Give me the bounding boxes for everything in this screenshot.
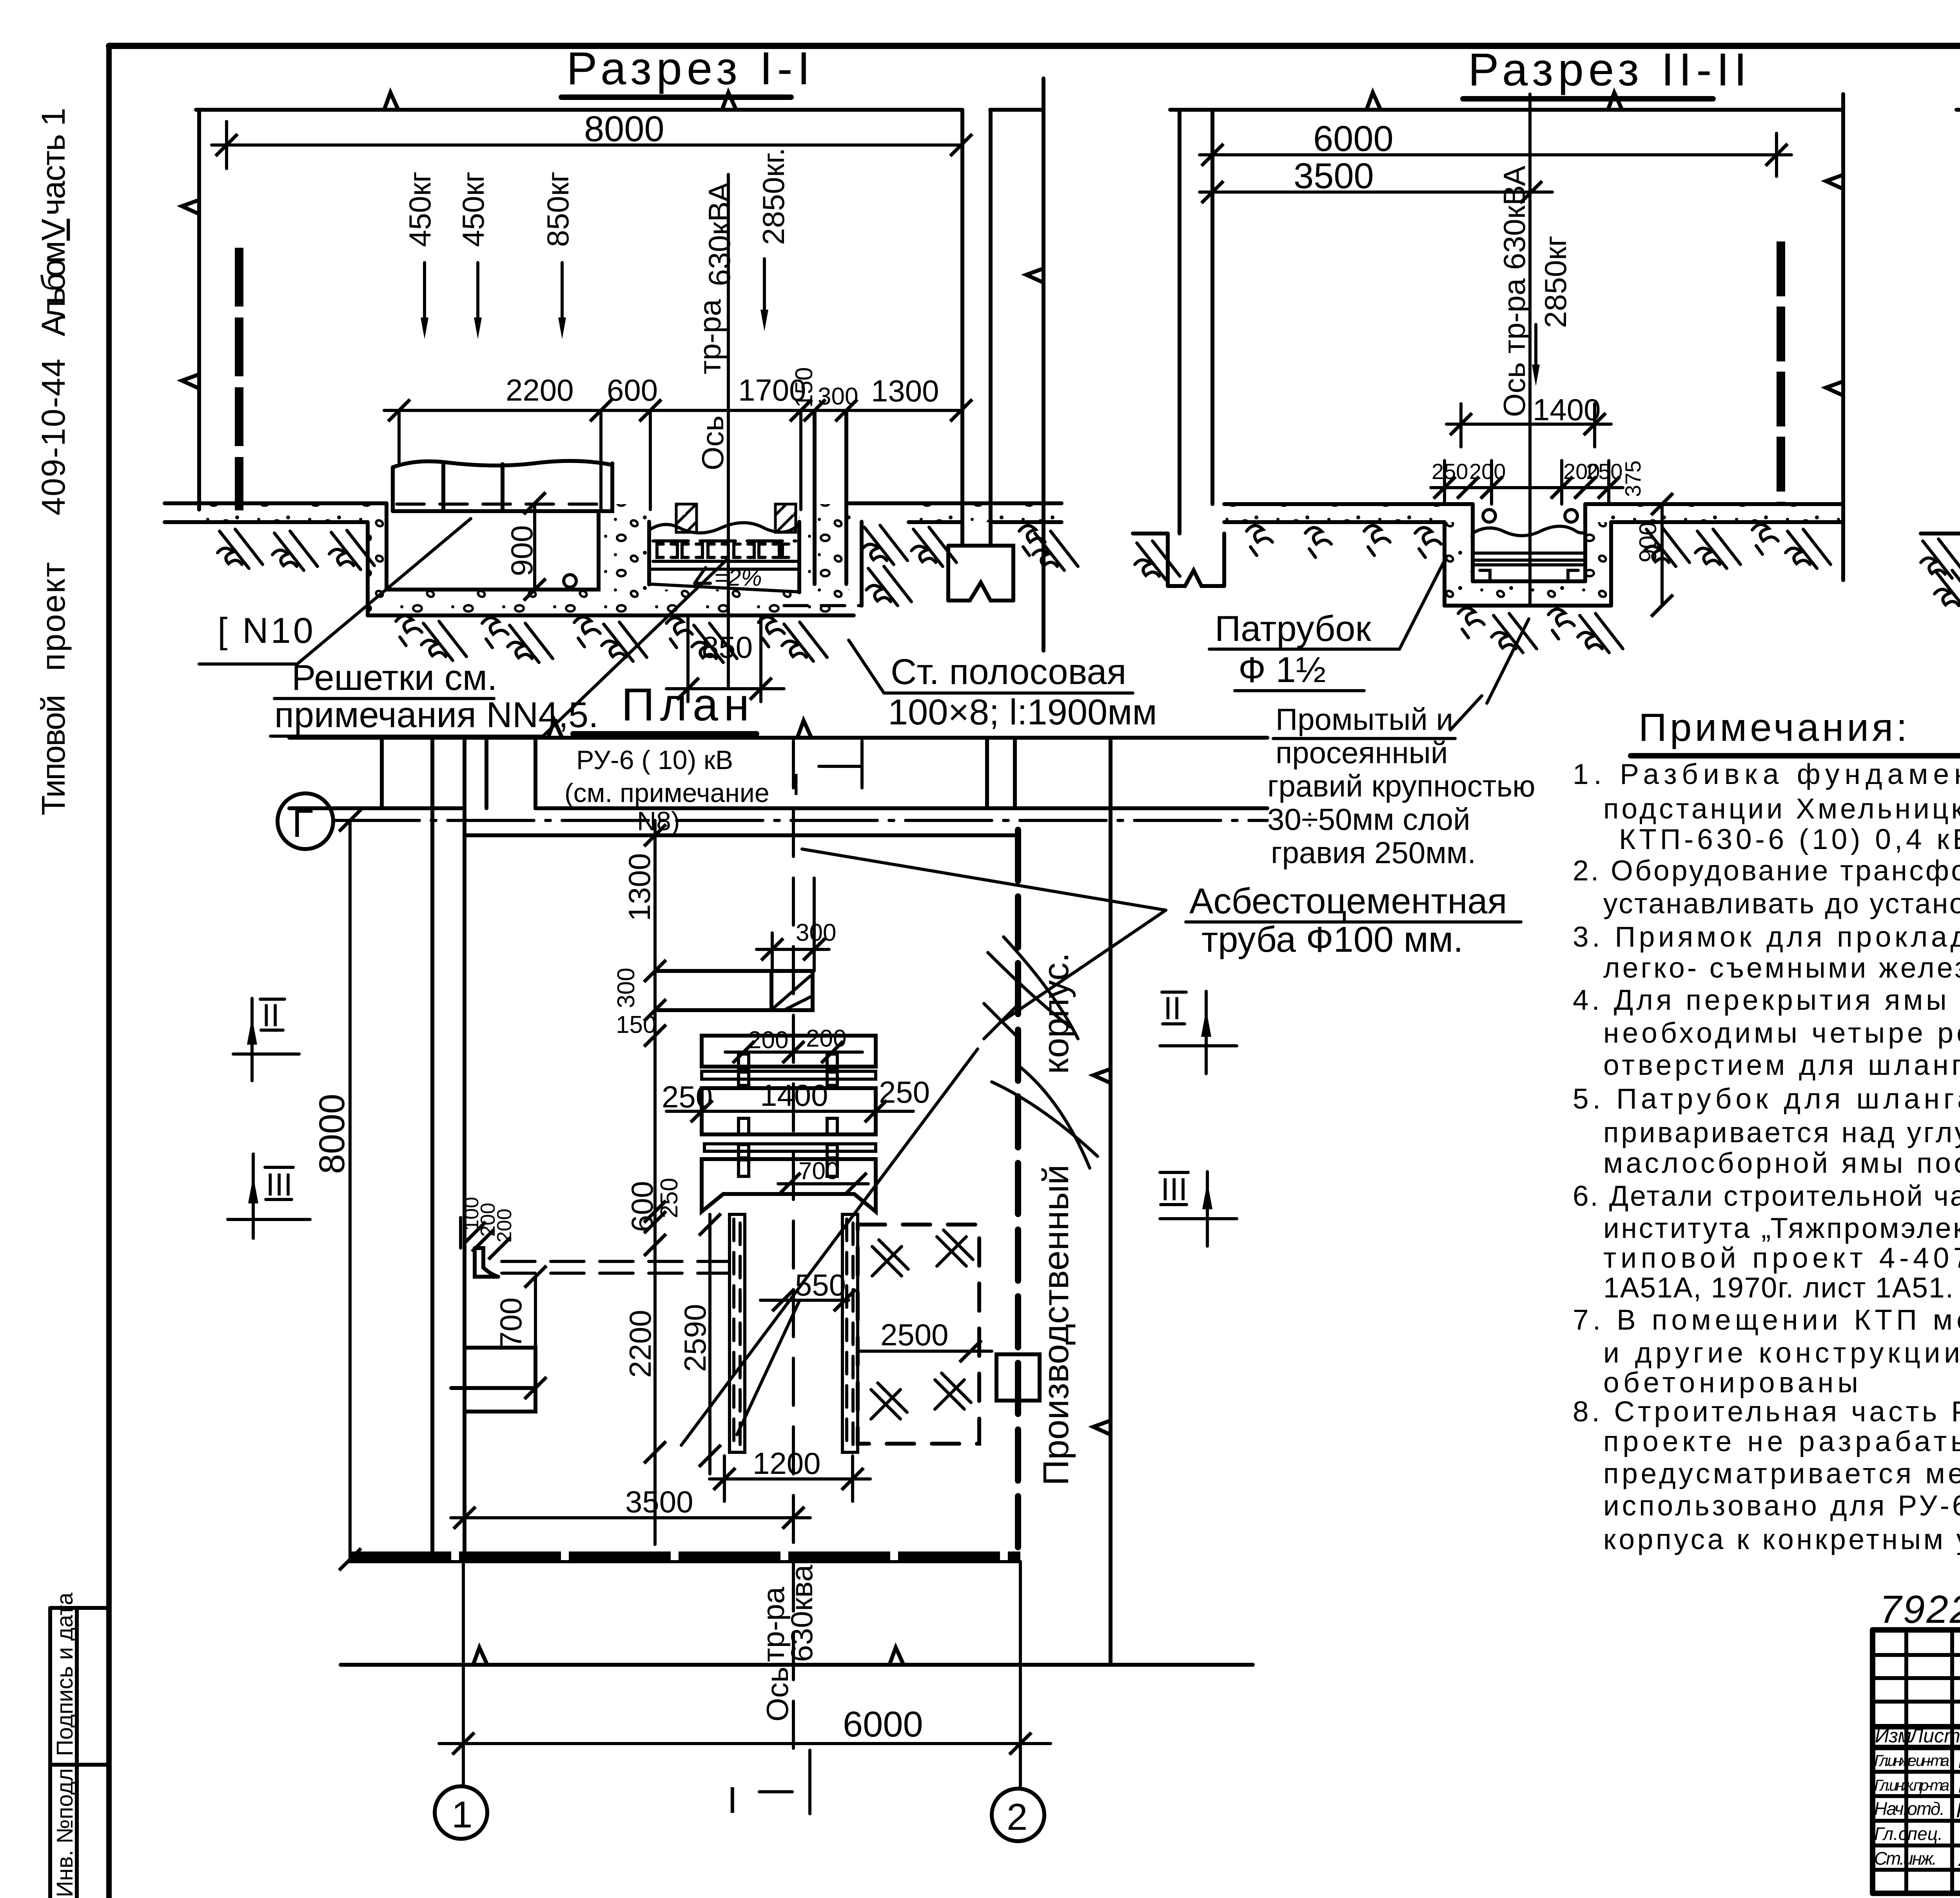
svg-text:II: II [262,998,280,1033]
svg-text:корпуса к конкретным усло: корпуса к конкретным условиям. [1603,1524,1960,1555]
section marks left III [228,1154,310,1238]
svg-text:300: 300 [818,383,858,410]
svg-text:отверстием для шланга.: отверстием для шланга. [1603,1049,1960,1081]
notes title underline [1631,753,1960,758]
section I-I title underline [561,94,791,100]
label underline [199,662,297,666]
floor slab right of pit II [1611,505,1842,522]
pit II left wall [1445,522,1473,606]
right wall thick dashed [1015,830,1021,1551]
svg-text:корпус.: корпус. [1036,953,1076,1074]
svg-text:2200: 2200 [623,1310,657,1378]
svg-text:630кВА: 630кВА [702,182,737,286]
svg-text:100×8; l:1900мм: 100×8; l:1900мм [888,692,1157,732]
dim 3500 bottom [451,1516,810,1519]
2850 arrow [763,259,766,310]
left bracket detail [475,1248,498,1277]
wall inner line lower [465,833,1018,837]
ground hatch left of pit [218,529,263,568]
axis line [1528,94,1532,606]
floor slab left of pit [1224,505,1445,522]
lower dim chain line [384,409,961,412]
svg-text:(см. примечание: (см. примечание [564,778,769,808]
svg-text:6000: 6000 [843,1704,923,1744]
axis G circle [278,793,333,849]
svg-text:Гузенко: Гузенко [1958,1747,1960,1773]
svg-text:гравия 250мм.: гравия 250мм. [1271,835,1476,870]
svg-text:200: 200 [806,1025,846,1052]
svg-text:630ква: 630ква [784,1564,819,1662]
svg-text:7922/9: 7922/9 [1880,1588,1960,1631]
dim 1200 bottom [710,1477,870,1481]
ceiling right stub [990,108,1043,112]
svg-text:Хейфец: Хейфец [1957,1845,1960,1871]
svg-text:1. Разбивка фундаментов прин: 1. Разбивка фундаментов принята для [1573,758,1960,790]
svg-text:План: План [621,679,755,731]
svg-text:часть 1: часть 1 [35,108,72,216]
left border line [106,46,112,1898]
svg-text:1300: 1300 [622,853,657,921]
svg-text:3500: 3500 [1294,156,1374,196]
svg-text:Альбом V: Альбом V [35,219,72,336]
svg-text:700: 700 [799,1158,839,1185]
bottom-left cell box [50,1592,109,1898]
grate lines in pit II [1473,552,1585,555]
dim 250 1400 250 [666,1110,913,1113]
svg-text:1200: 1200 [753,1446,821,1481]
plan title underline [573,731,757,737]
hatched post left [676,504,697,532]
svg-text:2850кг.: 2850кг. [756,148,791,245]
dim extension vertical x1671 [653,820,657,1544]
svg-text:РУ-6 ( 10) кВ: РУ-6 ( 10) кВ [576,745,733,775]
axis line [727,174,730,688]
svg-text:250: 250 [656,1178,683,1218]
svg-text:Гл.инж.пр-та: Гл.инж.пр-та [1874,1777,1949,1794]
svg-text:7. В помещении КТП металл: 7. В помещении КТП металлические колонны [1573,1304,1960,1336]
title block outer top [1873,1627,1960,1633]
channel right of pit [860,522,864,606]
pit inner room [387,511,599,590]
svg-text:Ось тр-ра 630кВА: Ось тр-ра 630кВА [1497,166,1532,417]
column footing [948,546,1013,601]
svg-text:2200: 2200 [506,373,574,407]
svg-text:2590: 2590 [678,1304,712,1372]
svg-text:[ N10: [ N10 [218,611,316,651]
svg-text:450кг: 450кг [456,171,490,247]
right top column pair [985,738,989,808]
pipe stub circles [1483,510,1495,522]
pit left wall (concrete) [368,510,387,615]
sloped pit floor line [649,584,800,592]
ground hatch under pit II [1458,608,1484,638]
dim 700 on row3 [778,1182,868,1185]
svg-text:проекте не разрабатывается.: проекте не разрабатывается. В пролете Г-… [1603,1426,1960,1457]
svg-text:Ось: Ось [760,1667,795,1722]
svg-text:3. Приямок для прокладки ка: 3. Приямок для прокладки кабелей перекры… [1573,921,1960,953]
svg-text:III: III [266,1167,292,1203]
svg-text:250: 250 [879,1075,930,1109]
wall 300 between pit and channel [813,410,817,584]
cable arc 2 [992,1082,1098,1156]
bottom thick wall [349,1551,1020,1562]
slope note 2% [695,568,710,583]
svg-text:250: 250 [1586,459,1622,484]
wall box on right wall [996,1354,1040,1401]
load arrow 2 [476,263,479,321]
pit partition concrete [599,504,649,590]
dim extension lines [397,410,401,463]
svg-text:8000: 8000 [312,1094,352,1174]
asbestos pipe leader B [1000,910,1166,1023]
patrubok leader [1399,561,1445,649]
svg-text:1300: 1300 [871,374,939,408]
svg-text:Ось: Ось [695,416,730,470]
leader from 550 to rail [737,1300,800,1435]
column footing [1921,533,1960,604]
svg-text:250: 250 [662,1080,713,1114]
left table horizontals [1873,1653,1960,1657]
outside ground left [1133,532,1168,535]
svg-text:2. Оборудование трансформатор: 2. Оборудование трансформаторная подстан… [1573,855,1960,887]
small dim chain 250 200 200 250 [1431,486,1623,489]
ground hatch under pit [396,616,422,646]
cable arc 1 [988,953,1070,1027]
LEFT SIDEBAR [35,108,109,1898]
svg-text:III: III [1161,1172,1187,1207]
section marks right II [1160,991,1237,1074]
svg-text:Нач.отд.: Нач.отд. [1874,1798,1945,1819]
asbestos pipe leader A [802,849,1166,910]
vent box 300 dim [757,948,829,951]
svg-text:6. Детали строительной час: 6. Детали строительной части см. альбом [1573,1180,1960,1212]
svg-text:Туркин: Туркин [1958,1820,1960,1847]
svg-text:маслосборной ямы после уста: маслосборной ямы после установки решетки… [1603,1147,1960,1179]
svg-text:устанавливать до установки: устанавливать до установки ограждения. [1603,888,1960,920]
svg-text:3500: 3500 [625,1484,693,1519]
hatch in excavation [862,525,907,564]
floor slab right segment [846,503,1062,522]
transformer platform outline [393,461,612,511]
dim 900 right of pit [1661,504,1664,606]
svg-text:тр-ра: тр-ра [693,299,727,374]
pit right wall concrete [799,504,846,614]
wall footing [1154,533,1224,586]
plan centre axis dash line [792,741,795,1752]
svg-text:600: 600 [607,373,658,407]
long leader diagonal [681,1049,978,1445]
svg-text:Примечания:: Примечания: [1639,706,1910,749]
svg-text:Типовой: Типовой [35,695,72,815]
lower building edge line [341,1663,1253,1667]
grate slab row1 [702,1036,876,1068]
svg-text:Изм: Изм [1875,1725,1911,1747]
drain circle [564,575,576,587]
left wall outer line [1178,110,1181,533]
svg-text:труба Ф100 мм.: труба Ф100 мм. [1201,920,1463,960]
svg-text:Гл.спец.: Гл.спец. [1874,1824,1943,1844]
svg-text:375: 375 [1621,461,1645,497]
svg-text:института „Тяжпромэлектропро: института „Тяжпромэлектропроект" [1603,1212,1960,1244]
svg-text:Инв. №подл.: Инв. №подл. [52,1762,78,1897]
gravel note leader [1487,619,1529,703]
svg-text:6000: 6000 [1313,119,1394,159]
svg-text:Ст.инж.: Ст.инж. [1874,1848,1937,1869]
svg-text:Промытый и: Промытый и [1276,702,1453,737]
svg-text:Гл.инже ин-та: Гл.инже ин-та [1874,1752,1949,1769]
axis G tick [339,809,361,831]
svg-text:1А51А, 1970г. лист 1А51. 64: 1А51А, 1970г. лист 1А51. 64 и 1А51. 69. [1603,1272,1960,1304]
svg-text:850: 850 [702,630,753,664]
top border line [109,43,1960,49]
svg-text:150: 150 [791,367,818,408]
svg-text:II: II [1163,991,1181,1026]
transformer rail right [842,1214,858,1452]
axis circle 1 [435,1786,487,1839]
axis circle 2 [992,1789,1044,1841]
gravel note slash [1450,696,1482,730]
dim 6000 line [1200,153,1791,156]
svg-text:2: 2 [1007,1796,1027,1838]
pit bottom slab [368,590,854,614]
svg-text:Кувшинский: Кувшинский [1956,1798,1960,1822]
floor slab left segment [165,503,387,522]
svg-text:легко- съемными железобетонн: легко- съемными железобетонными плитами. [1603,952,1960,984]
top wall columns [380,738,384,808]
axis 1 vertical [462,1562,465,1786]
section II cut line right [1841,94,1845,580]
svg-text:I: I [727,1779,738,1821]
thin slat 2 [704,1144,876,1151]
ground squiggles under floor [1247,526,1272,555]
svg-text:200: 200 [1469,459,1506,484]
left wall outer vertical [430,738,434,1559]
dim 1400 [1446,423,1611,426]
svg-text:Г: Г [292,802,313,846]
svg-text:409-10-44: 409-10-44 [35,359,72,515]
svg-text:2850кг: 2850кг [1538,236,1573,328]
pit II right wall [1585,522,1611,606]
title block bottom [1873,1891,1960,1896]
svg-text:8. Строительная часть РУ-6: 8. Строительная часть РУ-6 (10) кВ в дан… [1573,1396,1960,1428]
section II-II title underline [1463,96,1713,102]
hatch right of pit II [1644,527,1690,566]
svg-text:1400: 1400 [1533,392,1601,427]
svg-text:250: 250 [1432,459,1468,484]
900 dim line [533,503,536,590]
svg-text:850кг: 850кг [541,171,575,247]
svg-text:30÷50мм слой: 30÷50мм слой [1267,802,1470,836]
load arrow 1 [423,263,426,321]
line y2577 [655,1008,813,1012]
load arrow 3 [561,263,564,321]
grate chamber gravel line [649,523,799,533]
svg-text:гравий крупностью: гравий крупностью [1267,769,1535,803]
right outer boundary [1109,738,1112,1665]
left wall inner vertical [463,738,466,1559]
trench dashed lines [502,1260,730,1263]
column 1300 right [948,110,1013,601]
left table verticals [1870,1630,1875,1893]
grate channels row [652,541,797,569]
svg-text:КТП-630-6 (10) 0,4 кВ: КТП-630-6 (10) 0,4 кВ [1619,824,1960,855]
top wall inner line [289,806,465,810]
svg-text:450кг: 450кг [403,171,437,247]
thin slat 1 [702,1071,876,1079]
grate slab row3 trapezoid [702,1159,876,1212]
placeholder groups [165,43,1078,736]
section cut line right [1042,78,1045,651]
svg-text:и другие конструкции долж: и другие конструкции должны быть [1603,1337,1960,1369]
vent box [771,971,813,1010]
svg-text:300: 300 [796,919,836,946]
line y2477 [655,969,771,973]
platform channel dashed line [397,503,610,506]
svg-text:Патрубок: Патрубок [1215,609,1371,649]
svg-text:8000: 8000 [584,109,664,149]
hatch right segment [911,527,956,566]
leader to platform [297,519,471,664]
svg-text:Разрез I-I: Разрез I-I [566,43,815,94]
dark pier column [235,248,243,510]
dim 6000 bottom [439,1742,1051,1745]
outside ground hatch left [1921,539,1960,578]
axis 2 vertical [1019,1562,1022,1789]
steel strip leader [849,640,884,693]
ceiling beam line [1170,108,1843,112]
hatched post right [775,504,796,532]
svg-text:2500: 2500 [880,1317,949,1352]
channel bottom dashes [784,604,862,607]
svg-text:Подпись и дата: Подпись и дата [52,1592,78,1756]
svg-text:Решетки см.: Решетки см. [292,658,497,698]
transformer rail left [730,1214,745,1452]
section marks right III [1160,1172,1237,1246]
svg-text:1: 1 [452,1794,472,1836]
svg-text:1400: 1400 [760,1078,828,1112]
svg-text:Ф 1½: Ф 1½ [1238,650,1326,690]
grate slab row2 [702,1088,876,1134]
section I mark top: flag [819,741,862,788]
2850 arrow [1534,325,1537,370]
leader from grates note [543,559,728,736]
steel strip note underline [884,691,1133,695]
gravel wavy line in pit [1473,526,1585,535]
svg-text:700: 700 [494,1297,528,1348]
svg-text:300: 300 [613,968,640,1008]
pipe cross mark on wall [984,1003,1019,1039]
dark dashed pier right [1777,241,1785,504]
section marks left II [233,998,299,1081]
section I mark bottom [759,1750,810,1814]
svg-text:Асбестоцементная: Асбестоцементная [1189,881,1507,921]
svg-text:просеянный: просеянный [1276,735,1448,770]
axis G dash-dot line [333,819,1267,822]
dim 3500 line [1200,191,1552,194]
svg-text:Разрез II-II: Разрез II-II [1468,44,1751,96]
transformer X marks [872,1240,908,1276]
left wall line [197,110,201,510]
svg-text:200: 200 [748,1027,788,1054]
dim 8000 line [212,143,961,147]
lower-left foundation block [465,1348,535,1412]
svg-text:Производственный: Производственный [1036,1165,1076,1486]
vertical dim 8000 line [348,820,352,1559]
svg-text:Лист: Лист [1909,1725,1960,1747]
svg-text:Царев: Царев [1958,1771,1960,1798]
dim 200 200 on row1 [725,1051,862,1054]
transformer dashed outline [858,1225,979,1444]
top building outer line [289,736,1267,740]
ceiling beam line [1956,108,1960,112]
svg-text:200: 200 [493,1208,516,1243]
left wall inner line [1210,110,1214,504]
pit II bottom slab [1445,581,1611,606]
svg-text:Ст. полосовая: Ст. полосовая [891,652,1126,692]
platform inner verticals [441,465,445,510]
ceiling beam line [196,108,961,112]
